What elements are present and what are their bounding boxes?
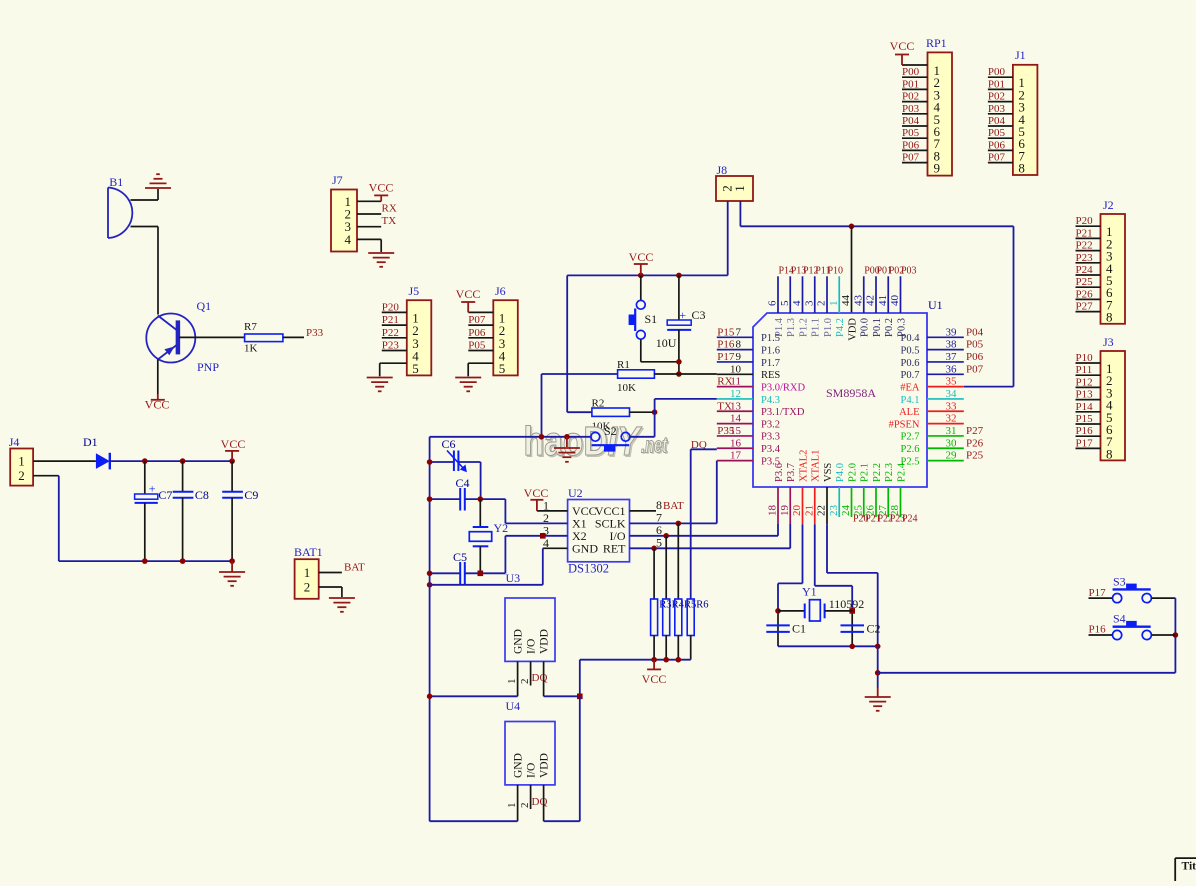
svg-text:P22: P22 <box>382 327 399 339</box>
svg-text:J8: J8 <box>717 163 728 177</box>
svg-text:P1.0: P1.0 <box>823 318 834 337</box>
U1 pin 34 <box>927 398 964 400</box>
wire (R1 left leg down) <box>541 374 543 437</box>
U1 pin 1 (top) <box>838 276 840 313</box>
svg-text:P3.6: P3.6 <box>774 463 785 482</box>
svg-text:P27: P27 <box>966 425 984 437</box>
svg-text:P1.1: P1.1 <box>811 318 822 337</box>
svg-text:19: 19 <box>779 505 791 517</box>
svg-text:P0.1: P0.1 <box>872 318 883 337</box>
U2 pin 3 (X2) wire <box>505 535 567 537</box>
U2 pin 5 (RET) wire <box>630 547 791 549</box>
svg-text:P2.1: P2.1 <box>860 463 871 482</box>
junction <box>663 657 669 663</box>
resistor pack RP1 <box>928 52 953 175</box>
capacitor C6 (variable) <box>430 461 454 463</box>
svg-text:P26: P26 <box>1076 288 1094 300</box>
wire (Q1 base to R7) <box>179 336 244 338</box>
U3 pin 2 (DQ) <box>530 661 532 685</box>
wire (J8 pin2 to VCC rail) <box>727 201 729 275</box>
svg-text:VCC: VCC <box>629 250 654 264</box>
wire (J8 pin1 / EA / VDD net) <box>739 201 741 226</box>
svg-text:C7: C7 <box>158 488 172 502</box>
wire VCC top rail <box>567 274 728 276</box>
svg-text:J4: J4 <box>9 435 20 449</box>
svg-text:1: 1 <box>506 679 518 685</box>
svg-text:J3: J3 <box>1103 335 1114 349</box>
svg-text:40: 40 <box>889 295 901 307</box>
svg-text:XTAL1: XTAL1 <box>811 450 822 482</box>
svg-text:I/O: I/O <box>526 763 538 778</box>
wire (Q1 emitter to VCC) <box>157 360 159 395</box>
svg-text:P06: P06 <box>902 139 920 151</box>
svg-text:B1: B1 <box>109 175 123 189</box>
svg-text:P05: P05 <box>468 340 486 352</box>
svg-text:BAT: BAT <box>344 562 365 574</box>
svg-text:8: 8 <box>1018 161 1025 176</box>
svg-text:39: 39 <box>946 326 958 338</box>
U1 pin 8 <box>717 349 753 351</box>
svg-text:P02: P02 <box>988 91 1005 103</box>
svg-text:1: 1 <box>732 185 747 192</box>
junction <box>1173 632 1179 638</box>
U1 pin 36 <box>927 373 964 375</box>
resistor R5 <box>677 523 679 599</box>
wire (C5 row to U2 X2) <box>504 536 506 574</box>
junction <box>849 224 855 230</box>
U1 pin20 XTAL2 wire <box>802 487 804 524</box>
wire (U3 gnd) <box>430 695 518 697</box>
svg-text:30: 30 <box>946 437 958 449</box>
U1 pin24 stub <box>851 487 853 517</box>
svg-text:P17: P17 <box>717 351 735 363</box>
U1 pin 3 (top) <box>814 276 816 313</box>
svg-text:J7: J7 <box>332 173 343 187</box>
svg-text:10K: 10K <box>617 382 636 394</box>
U1 pin26 stub <box>875 487 877 517</box>
svg-text:P3.4: P3.4 <box>761 444 781 455</box>
svg-text:43: 43 <box>852 295 864 307</box>
svg-text:8: 8 <box>736 339 742 351</box>
U4 pin 2 (DQ) <box>530 785 532 809</box>
wire (U1 pin17 to U2 SCLK) <box>716 461 718 524</box>
junction <box>142 558 148 564</box>
svg-text:RX: RX <box>382 202 397 214</box>
svg-text:P4.2: P4.2 <box>835 318 846 337</box>
svg-text:DQ: DQ <box>532 796 548 808</box>
ground (BAT1) <box>329 598 355 612</box>
svg-text:+: + <box>149 482 156 496</box>
svg-text:BAT: BAT <box>663 500 684 512</box>
wire left gnd rail <box>429 437 431 821</box>
svg-text:TX: TX <box>382 215 397 227</box>
junction <box>142 458 148 464</box>
svg-text:P21: P21 <box>382 314 399 326</box>
capacitor C1 <box>766 624 790 626</box>
svg-text:8: 8 <box>1106 310 1113 325</box>
svg-text:P26: P26 <box>966 437 984 449</box>
buzzer B1 <box>108 188 132 239</box>
svg-text:P0.5: P0.5 <box>901 345 920 356</box>
transistor Q1 <box>146 314 195 363</box>
U1 pin28 stub <box>900 487 902 517</box>
svg-text:I/O: I/O <box>526 639 538 654</box>
svg-text:C6: C6 <box>442 437 456 451</box>
junction <box>651 657 657 663</box>
IC U1 SM8958A <box>753 313 927 487</box>
svg-text:C8: C8 <box>195 488 209 502</box>
svg-text:23: 23 <box>828 505 840 517</box>
wire (C4 row to U2 X1) <box>504 499 506 523</box>
svg-text:14: 14 <box>730 413 742 425</box>
svg-text:P11: P11 <box>1076 364 1093 376</box>
svg-text:Titl: Titl <box>1182 861 1196 873</box>
junction <box>638 273 644 279</box>
svg-text:P0.6: P0.6 <box>901 358 920 369</box>
U4 pin 1 <box>517 785 519 821</box>
junction <box>676 521 682 527</box>
svg-text:GND: GND <box>513 629 525 654</box>
power VCC (J7) <box>374 195 388 201</box>
svg-text:P20: P20 <box>382 301 400 313</box>
svg-text:33: 33 <box>946 400 958 412</box>
svg-text:TX: TX <box>717 400 732 412</box>
wire (to S3/S4) <box>878 672 1176 674</box>
junction <box>539 434 545 440</box>
wire (BAT1 pin2 to gnd) <box>319 586 342 588</box>
svg-text:P27: P27 <box>1076 301 1094 313</box>
junction <box>478 571 484 577</box>
svg-text:1: 1 <box>304 565 311 580</box>
power VCC (RP1) <box>895 55 909 66</box>
svg-text:P2.2: P2.2 <box>872 463 883 482</box>
switch S1 <box>640 275 642 300</box>
U2 pin 6 (I/O) wire <box>630 535 779 537</box>
svg-text:12: 12 <box>730 388 741 400</box>
U4 pin 3 <box>543 785 545 821</box>
svg-text:5: 5 <box>779 300 791 306</box>
svg-text:4: 4 <box>791 300 803 306</box>
U1 pin 10 <box>717 373 753 375</box>
svg-text:VDD: VDD <box>847 318 858 341</box>
U2 pin 7 (SCLK) wire <box>630 522 717 524</box>
svg-text:P01: P01 <box>902 78 919 90</box>
svg-text:P05: P05 <box>966 339 984 351</box>
junction <box>849 644 855 650</box>
junction <box>875 644 881 650</box>
svg-text:P3.2: P3.2 <box>761 419 780 430</box>
junction <box>676 657 682 663</box>
resistor R6 + DQ wire <box>690 449 692 599</box>
svg-text:BAT1: BAT1 <box>294 545 323 559</box>
svg-text:U4: U4 <box>506 699 521 713</box>
U1 pin 43 (top) <box>863 276 865 313</box>
svg-text:P07: P07 <box>988 152 1006 164</box>
resistor R3 <box>653 548 655 599</box>
svg-text:RES: RES <box>761 370 780 381</box>
ground (J4 rail) <box>219 572 245 586</box>
U1 pin 15 <box>717 435 753 437</box>
svg-text:P2.3: P2.3 <box>884 463 895 482</box>
connector J6 <box>493 300 518 375</box>
svg-text:P3.1/TXD: P3.1/TXD <box>761 407 805 418</box>
power VCC (J6) <box>461 302 475 312</box>
wire VCC rail (D1 to VCC) <box>110 460 232 462</box>
svg-text:Y1: Y1 <box>802 585 817 599</box>
power VCC (top rail) <box>634 264 648 275</box>
svg-text:DQ: DQ <box>532 672 548 684</box>
svg-text:P03: P03 <box>901 266 917 277</box>
svg-text:P06: P06 <box>468 327 486 339</box>
wire (J7 pin4 to gnd) <box>380 239 382 252</box>
svg-text:S2: S2 <box>604 424 617 438</box>
junction <box>180 458 186 464</box>
svg-text:P07: P07 <box>966 363 984 375</box>
svg-text:P0.0: P0.0 <box>860 318 871 337</box>
svg-text:P2.6: P2.6 <box>901 444 920 455</box>
svg-text:110592: 110592 <box>829 597 865 611</box>
svg-text:VCC: VCC <box>456 287 481 301</box>
svg-text:R4: R4 <box>672 600 685 611</box>
junction <box>427 582 433 588</box>
junction <box>427 459 433 465</box>
U1 pin 30 <box>927 447 964 449</box>
junction <box>676 273 682 279</box>
U1 pin 12 <box>717 398 753 400</box>
capacitor C3 <box>678 275 680 320</box>
U1 pin 40 (top) <box>900 276 902 313</box>
svg-text:10: 10 <box>730 363 742 375</box>
junction <box>849 608 855 614</box>
capacitor C8 <box>182 461 184 492</box>
wire (S3 to S4) <box>1174 598 1176 673</box>
ground (J5) <box>367 378 393 392</box>
svg-text:P2.4: P2.4 <box>896 462 907 482</box>
svg-text:RP1: RP1 <box>926 36 947 50</box>
svg-text:1K: 1K <box>244 343 258 355</box>
switch S2 <box>430 436 591 438</box>
U1 pin 38 <box>927 349 964 351</box>
U1 pin 39 <box>927 336 964 338</box>
U1 pin 31 <box>927 435 964 437</box>
svg-text:VCC: VCC <box>890 39 915 53</box>
svg-text:P4.0: P4.0 <box>835 463 846 482</box>
U1 pin25 stub <box>863 487 865 517</box>
svg-text:SM8958A: SM8958A <box>826 386 876 400</box>
resistor R4 <box>665 536 667 599</box>
junction <box>229 558 235 564</box>
svg-text:P24: P24 <box>902 514 918 525</box>
svg-text:5: 5 <box>499 361 506 376</box>
svg-text:35: 35 <box>946 376 958 388</box>
U1 pin27 stub <box>887 487 889 517</box>
svg-text:P04: P04 <box>966 326 984 338</box>
svg-text:P16: P16 <box>1076 425 1094 437</box>
U2 pin 2 (X1) wire <box>505 522 567 524</box>
resistor R1 <box>542 373 618 375</box>
svg-text:R7: R7 <box>244 321 257 333</box>
svg-text:P04: P04 <box>902 115 920 127</box>
wire (J6 pin5 to gnd) <box>467 362 469 364</box>
svg-text:P10: P10 <box>828 266 844 277</box>
wire (gnd branch) <box>877 646 879 688</box>
svg-text:38: 38 <box>946 339 958 351</box>
svg-text:P1.7: P1.7 <box>761 358 780 369</box>
svg-text:DS1302: DS1302 <box>568 562 609 576</box>
U1 pin 35 <box>927 386 964 388</box>
U1 pin 13 <box>717 410 753 412</box>
svg-text:P4.3: P4.3 <box>761 395 780 406</box>
svg-text:U3: U3 <box>506 571 521 585</box>
svg-text:P25: P25 <box>1076 276 1094 288</box>
svg-text:P3.7: P3.7 <box>786 463 797 482</box>
svg-text:R1: R1 <box>617 359 630 371</box>
svg-text:5: 5 <box>656 535 662 549</box>
svg-text:P17: P17 <box>1076 437 1094 449</box>
svg-text:VCC: VCC <box>221 437 246 451</box>
svg-text:P15: P15 <box>1076 413 1094 425</box>
U1 pin23 stub <box>838 487 840 517</box>
svg-text:RET: RET <box>603 541 626 555</box>
svg-text:1: 1 <box>18 454 25 469</box>
svg-text:22: 22 <box>816 505 828 516</box>
svg-text:P06: P06 <box>966 351 984 363</box>
svg-text:P14: P14 <box>1076 401 1094 413</box>
svg-text:2: 2 <box>18 468 25 483</box>
svg-text:P24: P24 <box>1076 264 1094 276</box>
svg-text:7: 7 <box>736 326 742 338</box>
svg-text:P20: P20 <box>1076 215 1094 227</box>
U1 pin21 XTAL1 wire <box>814 487 816 524</box>
U1 pin 17 <box>717 460 753 462</box>
svg-text:P22: P22 <box>1076 240 1093 252</box>
svg-text:21: 21 <box>803 505 815 516</box>
svg-text:P0.3: P0.3 <box>896 318 907 337</box>
crystal Y2 <box>479 499 481 527</box>
svg-text:2: 2 <box>816 301 828 307</box>
U1 pin 37 <box>927 361 964 363</box>
U1 pin 9 <box>717 361 753 363</box>
connector BAT1 <box>295 559 319 599</box>
svg-text:U1: U1 <box>928 298 943 312</box>
ground (B1) <box>145 174 171 188</box>
svg-text:31: 31 <box>946 425 957 437</box>
svg-text:VDD: VDD <box>539 629 551 654</box>
svg-text:P01: P01 <box>988 78 1005 90</box>
svg-text:3: 3 <box>803 300 815 306</box>
power VCC (Q1) <box>151 399 165 401</box>
diode D1 <box>96 453 110 469</box>
svg-text:8: 8 <box>1106 446 1113 461</box>
junction <box>229 458 235 464</box>
svg-text:6: 6 <box>767 300 779 306</box>
svg-text:36: 36 <box>946 363 958 375</box>
svg-text:Q1: Q1 <box>197 299 212 313</box>
resistor R7 <box>245 334 283 342</box>
U1 pin 29 <box>927 460 964 462</box>
junction <box>540 533 546 539</box>
svg-text:J5: J5 <box>409 284 420 298</box>
svg-text:9: 9 <box>736 351 742 363</box>
svg-text:P1.2: P1.2 <box>798 318 809 337</box>
crystal Y1 circuit wires <box>778 582 803 584</box>
resistor R2 <box>567 411 592 413</box>
U1 pin 4 (top) <box>802 276 804 313</box>
svg-text:5: 5 <box>412 361 419 376</box>
svg-text:S3: S3 <box>1113 575 1126 589</box>
svg-text:1: 1 <box>828 301 840 307</box>
connector J5 <box>407 300 432 375</box>
U1 pin 33 <box>927 410 964 412</box>
svg-text:P06: P06 <box>988 139 1006 151</box>
svg-text:P16: P16 <box>1089 624 1107 636</box>
svg-text:#EA: #EA <box>900 382 920 393</box>
connector J3 <box>1101 351 1126 460</box>
svg-text:P04: P04 <box>988 115 1006 127</box>
svg-text:GND: GND <box>572 541 598 555</box>
wire (J4 pin2 gnd rail) <box>33 475 59 477</box>
wire (B1 top to gnd) <box>131 199 159 201</box>
svg-text:P0.7: P0.7 <box>901 370 920 381</box>
svg-text:18: 18 <box>767 505 779 517</box>
U1 pin 42 (top) <box>875 276 877 313</box>
svg-text:P00: P00 <box>902 66 920 78</box>
svg-text:VCC: VCC <box>369 181 394 195</box>
U2 pin 4 (GND) wire <box>543 547 568 549</box>
svg-text:P1.4: P1.4 <box>774 317 785 337</box>
U1 pin19 wire to RET <box>789 487 791 524</box>
U1 pin 41 (top) <box>887 276 889 313</box>
wire VCC rail (pullups) <box>580 659 691 661</box>
svg-text:4: 4 <box>345 232 352 247</box>
svg-text:42: 42 <box>865 295 877 306</box>
ground (S2) <box>566 437 568 447</box>
wire (R7 to P33) <box>283 336 304 338</box>
connector J7 <box>331 190 357 252</box>
svg-text:VCC: VCC <box>642 672 667 686</box>
svg-text:C9: C9 <box>244 488 258 502</box>
svg-text:XTAL2: XTAL2 <box>798 450 809 482</box>
svg-text:RX: RX <box>717 376 732 388</box>
svg-text:P13: P13 <box>1076 389 1094 401</box>
svg-text:GND: GND <box>513 753 525 778</box>
wire Y1 bottom rail <box>778 645 878 647</box>
svg-text:41: 41 <box>877 295 889 306</box>
U1 pin 32 <box>927 423 964 425</box>
wire (J5 pin5 to gnd) <box>380 362 382 364</box>
ground (J7) <box>368 253 394 267</box>
U1 pin 5 (top) <box>789 276 791 313</box>
wire (U4 bottom rail) <box>430 820 518 822</box>
capacitor C7 <box>144 461 146 494</box>
junction <box>875 670 881 676</box>
svg-text:J1: J1 <box>1015 48 1026 62</box>
U3 pin 1 <box>517 661 519 696</box>
svg-text:2: 2 <box>519 679 531 685</box>
svg-text:C4: C4 <box>456 476 470 490</box>
svg-text:R6: R6 <box>696 600 708 611</box>
svg-text:1: 1 <box>506 803 518 809</box>
svg-text:P12: P12 <box>1076 376 1093 388</box>
svg-text:P21: P21 <box>1076 227 1093 239</box>
svg-text:P16: P16 <box>717 339 735 351</box>
connector J8 <box>716 176 753 201</box>
junction <box>478 496 484 502</box>
svg-text:P15: P15 <box>717 326 735 338</box>
svg-text:P25: P25 <box>966 450 984 462</box>
connector J2 <box>1101 214 1126 324</box>
U1 pin 16 <box>717 447 753 449</box>
